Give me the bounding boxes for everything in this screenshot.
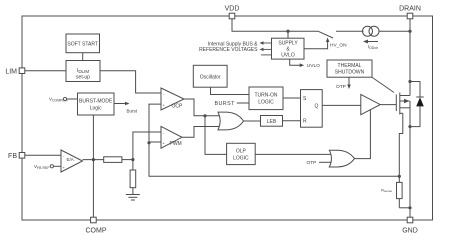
node OCP/OLP tap junction bbox=[203, 114, 206, 117]
node OTP output of thermal shutdown bbox=[336, 77, 351, 90]
wire soft start to idlim bbox=[82, 53, 84, 61]
wire VDD drop to supply rail bbox=[232, 19, 318, 31]
wire drain vertical bbox=[409, 19, 411, 96]
wire E/A output to comp node bbox=[83, 159, 104, 161]
svg-text:BURST-MODE: BURST-MODE bbox=[79, 99, 113, 105]
node divider junction bbox=[131, 158, 134, 161]
svg-text:E/A: E/A bbox=[67, 157, 74, 162]
wire burst-mode logic tap to comp node bbox=[92, 115, 94, 160]
svg-text:SHUTDOWN: SHUTDOWN bbox=[335, 69, 365, 75]
wire latch Q to driver bbox=[322, 104, 361, 106]
transistor body arrow bbox=[404, 99, 410, 103]
pin COMP bbox=[86, 217, 107, 234]
ground bbox=[126, 195, 140, 201]
resistor Rsense bbox=[381, 175, 412, 210]
svg-text:LOGIC: LOGIC bbox=[233, 155, 249, 161]
block IDLIM set-up bbox=[66, 61, 100, 82]
svg-text:REFERENCE VOLTAGES: REFERENCE VOLTAGES bbox=[199, 47, 258, 53]
svg-text:LIM: LIM bbox=[5, 69, 17, 76]
svg-text:Q: Q bbox=[315, 104, 319, 110]
wire current sense line to comparators bbox=[149, 104, 399, 176]
node OTP label near OR2 bbox=[307, 160, 333, 166]
svg-text:GND: GND bbox=[402, 228, 418, 235]
svg-text:TURN-ON: TURN-ON bbox=[254, 93, 277, 99]
pin DRAIN bbox=[399, 6, 421, 19]
svg-text:FB: FB bbox=[8, 153, 17, 160]
svg-text:OTP: OTP bbox=[336, 84, 346, 90]
block THERMAL SHUTDOWN bbox=[327, 60, 372, 77]
svg-text:THERMAL: THERMAL bbox=[338, 63, 362, 69]
svg-text:IDDch: IDDch bbox=[368, 44, 378, 50]
svg-text:R: R bbox=[303, 119, 307, 125]
wire OR2 output to driver bbox=[355, 110, 371, 159]
node drain-diode junction bbox=[408, 80, 411, 83]
svg-text:BURST: BURST bbox=[215, 101, 236, 107]
border frame bbox=[22, 16, 433, 220]
block TURN-ON LOGIC bbox=[249, 87, 283, 110]
wire divider node to PWM minus bbox=[133, 132, 161, 160]
current source IDDch circles bbox=[363, 26, 380, 36]
diode body diode bbox=[410, 82, 424, 127]
wire source vertical to gnd bbox=[409, 101, 411, 217]
svg-text:DRAIN: DRAIN bbox=[399, 6, 421, 13]
wire driver to gate bbox=[380, 104, 396, 106]
svg-text:OCP: OCP bbox=[172, 104, 184, 110]
node VCOMPbm label bbox=[49, 97, 78, 103]
resistor comp divider horizontal bbox=[104, 157, 122, 163]
block OLP LOGIC bbox=[227, 143, 256, 164]
svg-text:SOFT START: SOFT START bbox=[67, 42, 98, 48]
wire sense to PWM plus bbox=[149, 141, 161, 143]
wire OCP output to OR1 top input bbox=[184, 99, 220, 116]
svg-text:IDLIM: IDLIM bbox=[77, 68, 89, 74]
pin VDD bbox=[225, 6, 240, 19]
wire current source to drain line bbox=[379, 30, 410, 32]
wire burst output arrow bbox=[114, 102, 138, 114]
svg-text:PWM: PWM bbox=[170, 141, 182, 147]
svg-text:UVLO: UVLO bbox=[281, 53, 295, 59]
svg-text:Burst: Burst bbox=[127, 108, 138, 113]
wire thermal sense diagonal to MOSFET bbox=[372, 77, 394, 92]
block SUPPLY & UVLO bbox=[272, 38, 305, 59]
op-amp E/A error amplifier bbox=[61, 150, 83, 172]
pin FB bbox=[8, 153, 25, 161]
node source-diode junction bbox=[408, 125, 411, 128]
svg-text:LOGIC: LOGIC bbox=[258, 100, 274, 106]
switch HV_ON blade bbox=[318, 31, 333, 38]
block SOFT START bbox=[66, 34, 100, 53]
wire oscillator to turn-on logic bbox=[211, 87, 250, 94]
resistor comp divider vertical bbox=[130, 160, 136, 194]
wire resistor to divider node bbox=[122, 159, 133, 161]
svg-text:HV_ON: HV_ON bbox=[330, 43, 347, 49]
wire LIM pin to IDLIM bbox=[25, 70, 66, 72]
pin GND bbox=[402, 217, 418, 234]
wire junction to OLP logic bbox=[205, 116, 227, 155]
svg-text:OLP: OLP bbox=[236, 148, 247, 154]
wire OLP logic to OR2 top input bbox=[255, 153, 332, 155]
node VFBREF label bbox=[34, 164, 61, 170]
wire OR1 output to LEB bbox=[244, 120, 261, 122]
svg-text:VDD: VDD bbox=[225, 6, 240, 13]
node rail-supply junction bbox=[286, 30, 289, 33]
wire internal supply bus arrows bbox=[261, 43, 272, 55]
block BURST-MODE Logic bbox=[78, 93, 115, 115]
wire supply box top stub bbox=[287, 31, 289, 38]
svg-text:Logic: Logic bbox=[90, 106, 102, 112]
wire turn-on logic to latch S bbox=[283, 97, 301, 99]
svg-text:LEB: LEB bbox=[267, 119, 277, 125]
svg-text:Rsense: Rsense bbox=[381, 187, 392, 193]
transistor power MOSFET bbox=[396, 93, 410, 115]
wire UVLO output bbox=[290, 59, 320, 69]
svg-text:set-up: set-up bbox=[76, 75, 90, 81]
IDDch arrow bbox=[363, 40, 378, 51]
wire HV_ON control bbox=[304, 38, 347, 49]
op-amp OCP comparator bbox=[161, 88, 184, 110]
block LEB bbox=[261, 116, 283, 127]
flip-flop SR latch bbox=[301, 90, 323, 128]
wire FB to E/A bbox=[25, 154, 61, 156]
wire sense cell to Rsense bbox=[399, 113, 403, 176]
svg-text:VFB REF: VFB REF bbox=[34, 164, 49, 170]
svg-text:COMP: COMP bbox=[86, 228, 107, 235]
block Oscillator bbox=[193, 65, 227, 87]
wire IDLIM to OCP minus input bbox=[100, 71, 161, 93]
node rail-drain junction bbox=[408, 30, 411, 33]
op-amp PWM comparator bbox=[161, 126, 182, 148]
gate OR2 bbox=[329, 150, 354, 167]
wire LEB to latch R bbox=[283, 120, 301, 122]
node Internal Supply BUS & REFERENCE VOLTAGES label bbox=[199, 42, 258, 54]
gate OR1 bbox=[218, 112, 244, 130]
wire rail switch to current source bbox=[336, 30, 364, 32]
pin LIM bbox=[5, 68, 24, 76]
node sense-PWM junction bbox=[147, 141, 150, 144]
svg-text:UVLO: UVLO bbox=[307, 63, 320, 69]
wire PWM output to OR1 bottom input bbox=[182, 127, 220, 138]
node BURST label near turn-on logic bbox=[215, 101, 250, 107]
node comp junction bbox=[92, 158, 95, 161]
wire comp node down to COMP pin bbox=[92, 160, 94, 217]
svg-text:OTP: OTP bbox=[307, 160, 317, 166]
svg-text:Oscillator: Oscillator bbox=[200, 75, 221, 81]
op-amp driver buffer bbox=[361, 94, 380, 114]
